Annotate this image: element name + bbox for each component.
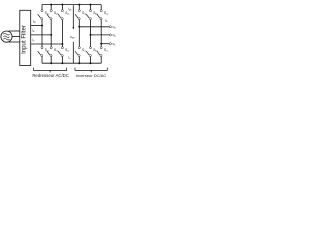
switch Sap	[75, 10, 80, 20]
node p : top rail	[42, 4, 101, 6]
input phase line 3	[31, 43, 63, 45]
switch Spa	[38, 10, 43, 20]
svg-text:upn: upn	[70, 35, 75, 40]
junction dots bottom rail	[50, 62, 91, 64]
svg-text:iA: iA	[33, 20, 36, 25]
svg-text:ia: ia	[105, 18, 108, 23]
node dots input taps	[41, 25, 63, 46]
svg-text:iB: iB	[32, 29, 35, 34]
svg-text:Scn: Scn	[104, 48, 109, 53]
voltage arrow upn	[72, 5, 74, 28]
ac source G1	[1, 31, 12, 42]
output line c	[101, 43, 109, 45]
switch Spc	[58, 10, 63, 20]
output line b	[91, 34, 110, 36]
switch Scp	[97, 10, 102, 20]
wire source to filter phase 3	[9, 41, 20, 43]
input filter box	[20, 10, 31, 65]
wire leg3 inverter	[100, 5, 102, 64]
svg-text:iC: iC	[32, 38, 35, 43]
svg-text:Inverseur DC/AC: Inverseur DC/AC	[76, 73, 107, 78]
node dots output taps	[78, 26, 102, 45]
wire source to filter phase 2	[12, 36, 20, 38]
wire source to filter phase 1	[9, 30, 20, 32]
wire leg2 inverter	[90, 5, 92, 64]
switch Snc	[58, 47, 63, 57]
output terminal a	[109, 26, 111, 28]
output terminal c	[109, 43, 111, 45]
input phase line 2	[31, 34, 52, 36]
wire leg1 rectifier	[41, 5, 43, 64]
svg-text:Redresseur AC/DC: Redresseur AC/DC	[32, 73, 69, 78]
svg-text:Input Filter: Input Filter	[21, 25, 28, 54]
svg-text:va: va	[113, 25, 117, 30]
svg-text:idc: idc	[68, 7, 72, 12]
wire leg1 inverter	[78, 5, 80, 64]
svg-text:Spc: Spc	[65, 11, 69, 16]
brace rectifier	[34, 68, 67, 73]
svg-text:Snc: Snc	[65, 48, 69, 53]
switch Scn	[97, 47, 102, 57]
junction dots top rail	[50, 4, 91, 6]
switch Sbp	[86, 10, 91, 20]
brace inverter	[75, 68, 107, 73]
wire leg3 rectifier	[61, 5, 63, 64]
switch San	[75, 47, 80, 57]
switch Sna	[38, 47, 43, 57]
svg-text:in: in	[68, 56, 71, 61]
svg-text:Scp: Scp	[104, 11, 109, 16]
svg-text:vb: vb	[113, 33, 117, 38]
wire leg2 rectifier	[50, 5, 52, 64]
svg-text:Sna: Sna	[45, 48, 50, 53]
switch Sbn	[86, 47, 91, 57]
svg-text:vc: vc	[113, 42, 117, 47]
switch Snb	[47, 47, 52, 57]
switch Spb	[47, 10, 52, 20]
svg-text:Spa: Spa	[45, 11, 50, 16]
input phase line 1	[31, 25, 42, 27]
output terminal b	[109, 34, 111, 36]
output line a	[79, 26, 109, 28]
node n : bottom rail	[42, 62, 101, 64]
